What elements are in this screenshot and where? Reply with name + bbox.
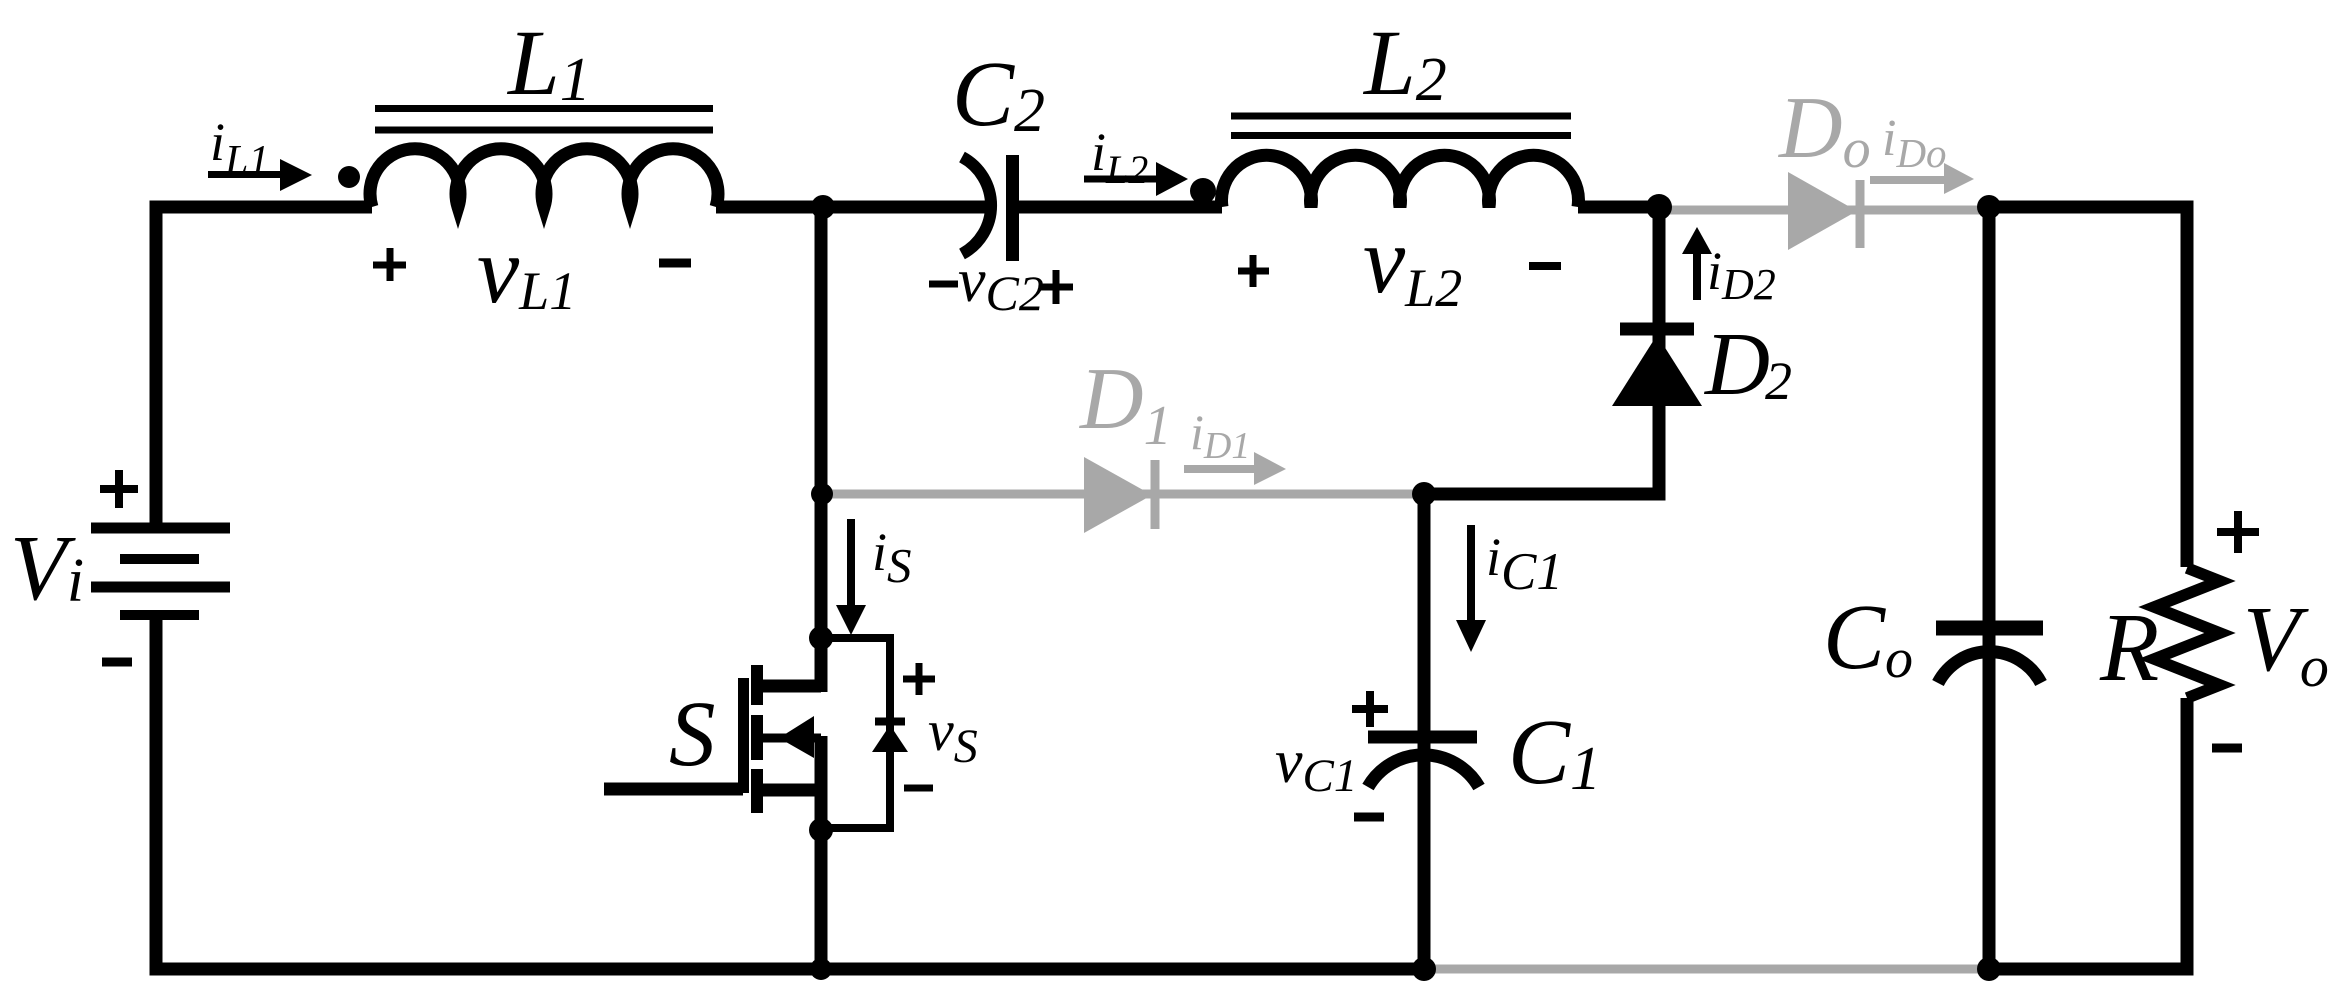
wire: output loop top and right down to R [1989,207,2187,567]
svg-text:iS: iS [872,522,912,593]
svg-text:vS: vS [928,698,978,773]
node: MOSFET drain junction [809,626,833,650]
battery Vi plate short [120,554,199,564]
vS plus [903,663,935,695]
L2 polarity dot [1190,178,1216,204]
svg-text:vL2: vL2 [1363,207,1462,318]
svg-text:iD2: iD2 [1707,241,1776,309]
wire: S branch drain side [815,207,828,692]
wire: top-left loop (top rail left + left rail upper) [156,207,372,523]
L1 polarity dot [338,166,360,188]
wire: C1 branch [1418,494,1431,969]
vC1 minus [1354,813,1384,822]
svg-text:iD1: iD1 [1190,404,1250,467]
resistor R zigzag [2154,568,2220,698]
vL2 minus [1529,262,1561,270]
wire: L1 to C2 [716,201,986,214]
node: top of S branch [811,195,835,219]
node: C1 bottom junction [1412,957,1436,981]
battery plus [100,470,138,508]
wire: gray bottom return from C1 node to output node [1424,965,1989,974]
svg-text:R: R [2099,594,2159,701]
MOSFET body-diode loop wire [821,638,890,828]
body diode triangle [872,725,908,752]
vC1 plus [1352,691,1388,727]
wire: left rail lower + bottom rail to C1 node [156,611,1424,969]
current arrow i_D1 (gray) [1184,452,1286,485]
inductor L2 core bars [1231,116,1571,136]
vC2 minus [929,281,958,288]
current arrow i_D2 [1682,227,1712,300]
node: output top junction [1977,195,2001,219]
battery minus [102,658,132,667]
capacitor C1 straight plate [1368,731,1477,744]
MOSFET S body arrow [779,716,814,758]
svg-text:C1: C1 [1508,701,1601,804]
wire: C2 to L2 [1019,201,1222,214]
MOSFET S gate bar [738,678,749,793]
wire: output loop right lower and bottom [1989,698,2187,969]
svg-text:Co: Co [1823,586,1913,690]
svg-text:Vo: Vo [2243,588,2329,699]
svg-text:D1: D1 [1079,351,1172,457]
wire: gray D1 branch from S node to C1 node [823,490,1424,499]
current arrow i_L2 [1084,162,1188,196]
svg-text:L1: L1 [506,12,591,115]
wire: gray Do branch from L2/D2 node to output node [1659,206,1989,215]
MOSFET S channel segments [751,665,763,813]
svg-text:vC2: vC2 [958,247,1044,321]
current arrow i_Do (gray) [1870,163,1974,194]
inductor L1 core bars [375,109,713,131]
node: L2/D2/Do junction [1646,194,1672,220]
svg-text:C2: C2 [952,43,1045,146]
wire: Co branch [1983,207,1996,969]
inductor L1 winding [370,149,718,207]
node: D1/C1/D2 junction [1412,482,1436,506]
Vo plus [2217,511,2259,553]
diode D1 (gray) [1084,457,1155,533]
capacitor Co curved plate [1938,652,2041,683]
current arrow i_S [836,519,866,635]
MOSFET S body lead [763,734,821,743]
svg-text:iL2: iL2 [1091,122,1148,192]
MOSFET S source lead [758,784,821,797]
MOSFET S gate lead [604,783,743,796]
diode Do (gray) [1788,172,1860,250]
node: D1 left junction [811,483,833,505]
battery Vi plate long [91,582,230,593]
battery Vi plate short bottom [120,610,199,620]
wire: S branch source side [815,736,828,969]
svg-text:L2: L2 [1362,12,1447,115]
svg-text:iC1: iC1 [1486,527,1563,601]
capacitor Co straight plate [1936,621,2043,636]
node: S bottom junction [810,958,832,980]
vS minus [904,785,933,792]
Vo minus [2212,744,2242,753]
wire: L2 to D2 node [1578,201,1661,214]
vL2 plus [1238,255,1269,287]
capacitor C2 curved plate [962,157,991,254]
inductor L2 winding [1222,155,1579,207]
MOSFET S drain lead [758,680,821,693]
capacitor C1 curved plate [1368,755,1479,787]
svg-text:vL1: vL1 [477,217,576,323]
svg-text:iDo: iDo [1882,110,1947,176]
node: MOSFET source junction [809,818,833,842]
svg-text:Vi: Vi [10,517,84,620]
wire: D2 branch and link to C1 node [1424,207,1659,494]
svg-text:S: S [669,683,716,786]
body diode cathode bar [875,718,905,726]
current arrow i_C1 [1456,525,1486,652]
vL1 plus [373,248,406,281]
diode D2 triangle [1612,335,1702,406]
diode D2 cathode bar [1620,323,1694,336]
svg-text:Do: Do [1778,80,1871,180]
svg-text:vC1: vC1 [1275,728,1357,802]
vL1 minus [659,259,691,268]
current arrow i_L1 [208,159,312,191]
battery Vi plate long top [91,523,230,534]
node: Co bottom junction [1977,957,2001,981]
vC2 plus [1039,270,1073,304]
svg-text:D2: D2 [1703,315,1792,414]
capacitor C2 straight plate [1006,155,1019,261]
